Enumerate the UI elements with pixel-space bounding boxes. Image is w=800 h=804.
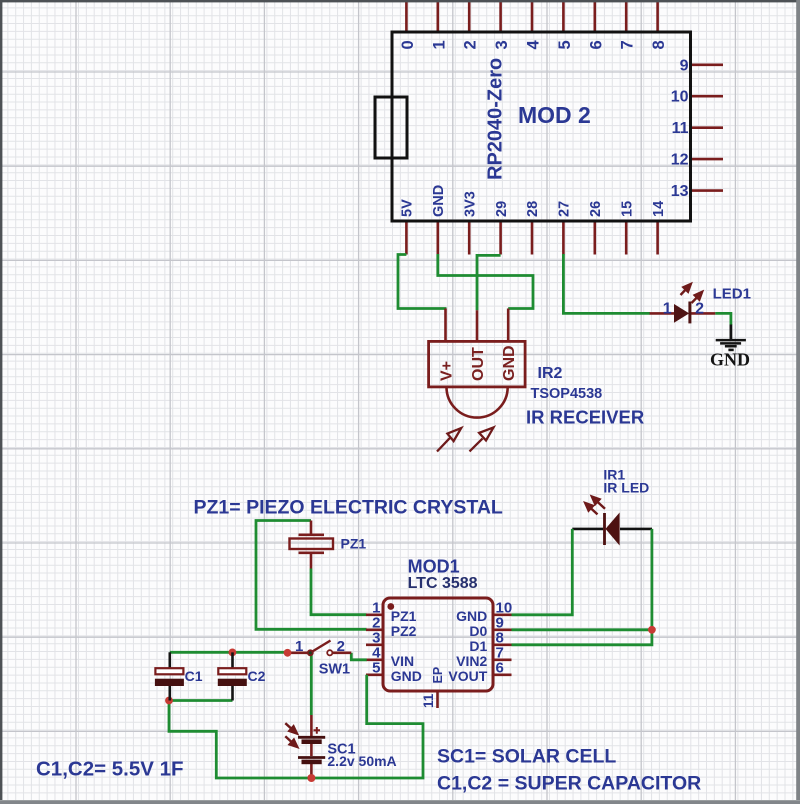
svg-text:1: 1 xyxy=(663,301,672,318)
svg-text:C1,C2= 5.5V 1F: C1,C2= 5.5V 1F xyxy=(36,758,184,781)
svg-text:IR LED: IR LED xyxy=(603,480,649,496)
svg-text:VOUT: VOUT xyxy=(448,668,487,684)
svg-text:GND: GND xyxy=(710,350,750,370)
svg-text:12: 12 xyxy=(671,152,689,169)
svg-text:PZ1: PZ1 xyxy=(341,536,367,552)
svg-text:C1,C2 = SUPER CAPACITOR: C1,C2 = SUPER CAPACITOR xyxy=(437,773,701,795)
svg-text:5V: 5V xyxy=(400,199,416,217)
svg-text:5: 5 xyxy=(556,40,574,49)
svg-text:2: 2 xyxy=(462,40,480,49)
svg-text:9: 9 xyxy=(680,57,689,74)
svg-text:14: 14 xyxy=(651,201,667,217)
svg-text:27: 27 xyxy=(557,201,573,217)
svg-text:6: 6 xyxy=(587,40,605,49)
svg-text:VIN: VIN xyxy=(391,653,414,669)
svg-text:PZ1: PZ1 xyxy=(391,608,417,624)
svg-text:IR2: IR2 xyxy=(538,365,563,382)
svg-text:8: 8 xyxy=(650,40,668,49)
svg-text:OUT: OUT xyxy=(470,347,487,381)
svg-text:1: 1 xyxy=(295,638,303,655)
svg-text:0: 0 xyxy=(399,40,417,49)
svg-text:26: 26 xyxy=(588,201,604,217)
svg-text:GND: GND xyxy=(391,668,422,684)
svg-text:10: 10 xyxy=(671,89,689,106)
svg-text:13: 13 xyxy=(671,183,689,200)
svg-text:TSOP4538: TSOP4538 xyxy=(531,386,603,402)
svg-text:11: 11 xyxy=(421,693,436,708)
svg-text:D0: D0 xyxy=(469,623,487,639)
svg-text:SW1: SW1 xyxy=(319,662,350,678)
svg-text:LTC 3588: LTC 3588 xyxy=(408,575,478,592)
svg-text:RP2040-Zero: RP2040-Zero xyxy=(485,58,507,180)
svg-text:LED1: LED1 xyxy=(713,286,751,303)
svg-text:2: 2 xyxy=(695,301,704,318)
svg-text:29: 29 xyxy=(494,201,510,217)
svg-text:V+: V+ xyxy=(438,361,455,381)
svg-text:3: 3 xyxy=(493,40,511,49)
svg-text:6: 6 xyxy=(496,659,504,676)
svg-text:EP: EP xyxy=(431,667,445,684)
svg-text:D1: D1 xyxy=(469,638,487,654)
svg-text:1: 1 xyxy=(430,40,448,49)
svg-text:C2: C2 xyxy=(248,668,266,684)
svg-text:7: 7 xyxy=(619,40,637,49)
svg-text:C1: C1 xyxy=(185,668,203,684)
svg-text:SC1= SOLAR CELL: SC1= SOLAR CELL xyxy=(437,746,616,768)
svg-text:2: 2 xyxy=(337,638,345,655)
svg-text:PZ1= PIEZO ELECTRIC CRYSTAL: PZ1= PIEZO ELECTRIC CRYSTAL xyxy=(194,497,503,519)
svg-text:2.2v 50mA: 2.2v 50mA xyxy=(327,753,396,769)
svg-text:15: 15 xyxy=(619,201,635,217)
svg-text:5: 5 xyxy=(372,659,380,676)
svg-text:VIN2: VIN2 xyxy=(456,653,487,669)
svg-text:IR RECEIVER: IR RECEIVER xyxy=(526,407,644,428)
svg-text:28: 28 xyxy=(525,201,541,217)
svg-text:PZ2: PZ2 xyxy=(391,623,417,639)
svg-text:11: 11 xyxy=(672,120,689,137)
svg-text:GND: GND xyxy=(431,185,447,217)
svg-text:MOD 2: MOD 2 xyxy=(518,102,591,128)
svg-text:GND: GND xyxy=(501,345,518,381)
svg-text:GND: GND xyxy=(456,608,487,624)
svg-text:3V3: 3V3 xyxy=(462,191,478,217)
svg-text:4: 4 xyxy=(525,40,543,50)
svg-text:MOD1: MOD1 xyxy=(408,557,460,577)
